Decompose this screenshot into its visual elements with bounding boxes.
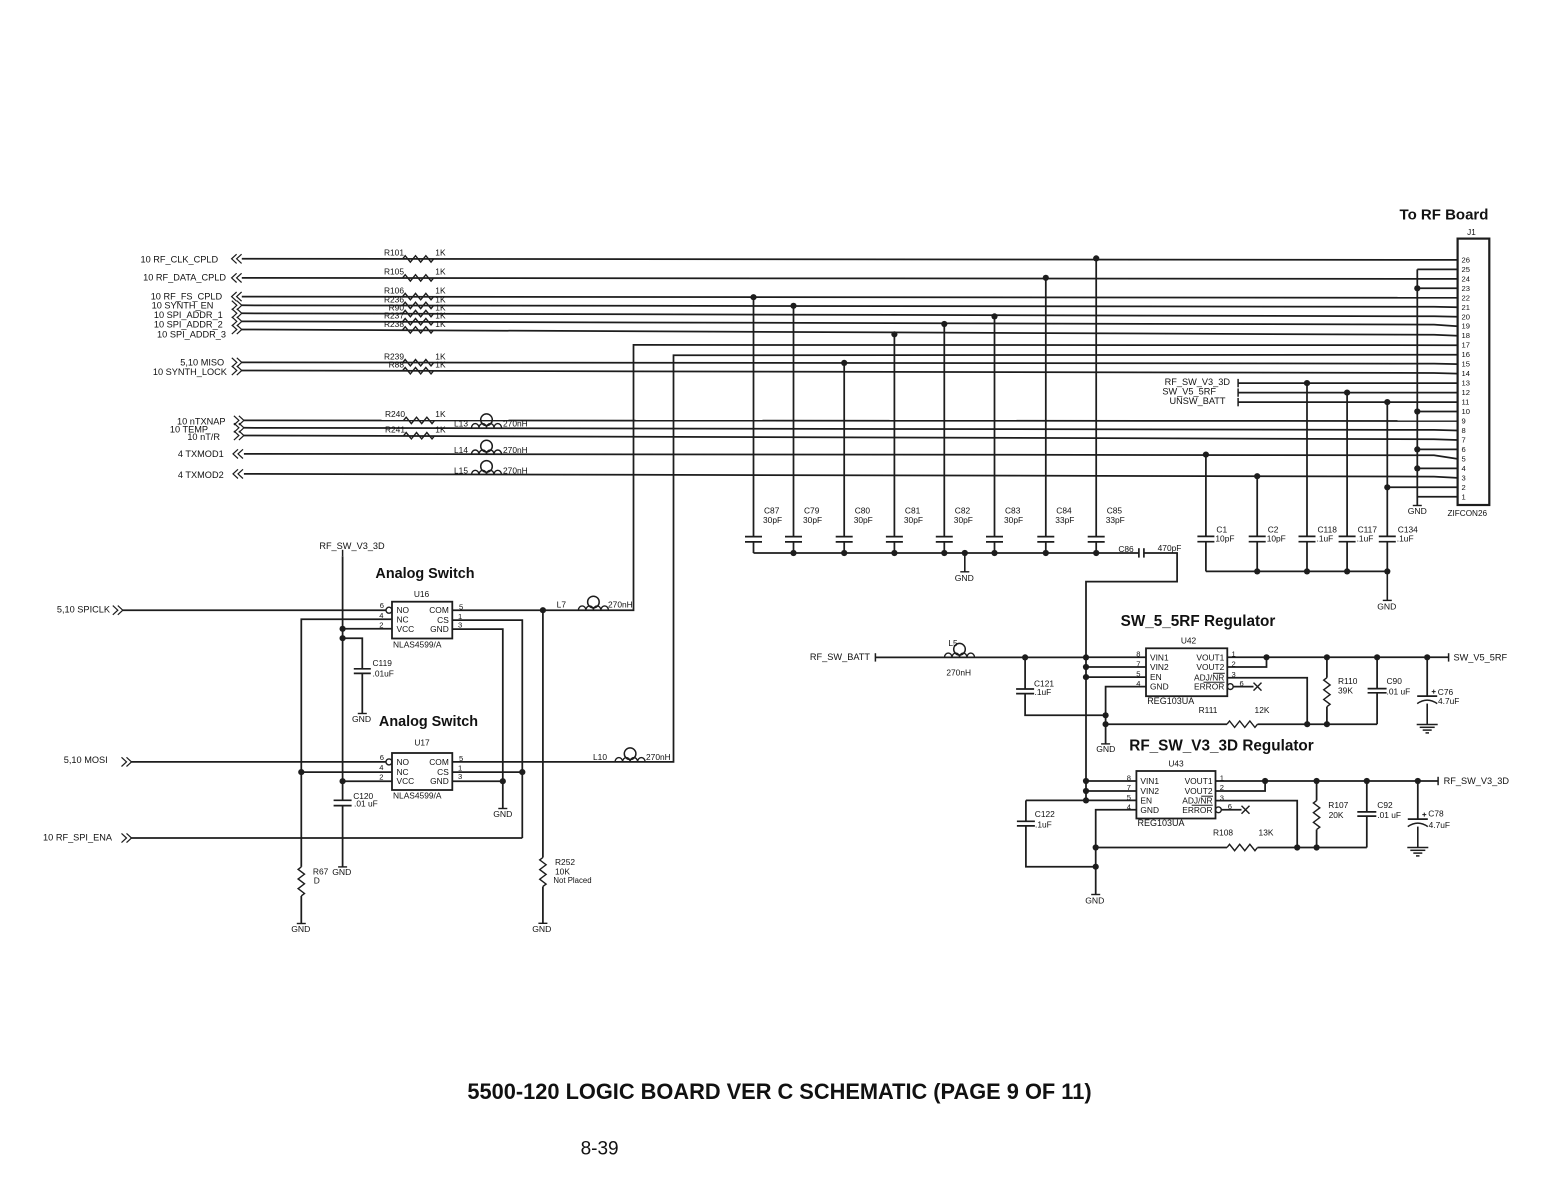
- svg-text:GND: GND: [532, 924, 551, 934]
- svg-text:C119: C119: [373, 658, 393, 668]
- svg-text:.1uF: .1uF: [1035, 687, 1052, 697]
- svg-text:VOUT2: VOUT2: [1196, 662, 1224, 672]
- svg-text:Analog Switch: Analog Switch: [375, 566, 474, 582]
- svg-text:20K: 20K: [1329, 810, 1344, 820]
- svg-text:6: 6: [380, 753, 384, 762]
- svg-text:.1uF: .1uF: [1035, 820, 1052, 830]
- svg-text:D: D: [314, 876, 320, 886]
- svg-text:L15: L15: [454, 465, 468, 475]
- svg-text:10 RF_CLK_CPLD: 10 RF_CLK_CPLD: [140, 255, 218, 265]
- svg-text:NO: NO: [397, 757, 410, 767]
- svg-text:5: 5: [1462, 454, 1466, 463]
- svg-text:U42: U42: [1181, 636, 1197, 646]
- svg-text:RF_SW_V3_3D: RF_SW_V3_3D: [1165, 377, 1231, 387]
- svg-text:.1uF: .1uF: [1317, 534, 1334, 544]
- svg-text:NC: NC: [397, 614, 409, 624]
- svg-text:VCC: VCC: [397, 776, 415, 786]
- svg-text:VOUT1: VOUT1: [1185, 776, 1213, 786]
- svg-text:39K: 39K: [1338, 686, 1353, 696]
- svg-text:J1: J1: [1467, 228, 1476, 237]
- svg-text:26: 26: [1462, 255, 1470, 264]
- svg-text:22: 22: [1462, 293, 1470, 302]
- svg-text:17: 17: [1462, 341, 1470, 350]
- svg-text:1K: 1K: [435, 409, 446, 419]
- svg-text:R111: R111: [1199, 705, 1218, 715]
- svg-text:15: 15: [1462, 360, 1470, 369]
- svg-text:.01uF: .01uF: [373, 669, 394, 679]
- svg-text:10 SPI_ADDR_1: 10 SPI_ADDR_1: [154, 310, 223, 320]
- svg-text:L5: L5: [948, 638, 958, 648]
- svg-text:L7: L7: [557, 599, 567, 609]
- svg-text:270nH: 270nH: [946, 667, 971, 677]
- svg-text:RF_SW_V3_3D: RF_SW_V3_3D: [319, 541, 385, 551]
- svg-text:RF_SW_V3_3D: RF_SW_V3_3D: [1444, 776, 1510, 786]
- svg-text:ERROR: ERROR: [1182, 805, 1212, 815]
- svg-text:1: 1: [1462, 492, 1466, 501]
- svg-text:3: 3: [1462, 473, 1466, 482]
- svg-text:10 RF_DATA_CPLD: 10 RF_DATA_CPLD: [143, 273, 226, 283]
- svg-text:R238: R238: [384, 319, 404, 329]
- svg-text:4: 4: [379, 763, 383, 772]
- svg-text:10 nT/R: 10 nT/R: [187, 432, 220, 442]
- svg-text:8-39: 8-39: [581, 1138, 619, 1159]
- svg-text:470pF: 470pF: [1158, 543, 1182, 553]
- svg-text:VIN2: VIN2: [1150, 662, 1169, 672]
- svg-text:14: 14: [1462, 369, 1470, 378]
- svg-text:RF_SW_V3_3D Regulator: RF_SW_V3_3D Regulator: [1129, 737, 1314, 754]
- svg-text:10: 10: [1462, 407, 1470, 416]
- svg-text:C92: C92: [1377, 800, 1393, 810]
- svg-text:SW_V5_5RF: SW_V5_5RF: [1162, 386, 1216, 396]
- svg-text:VOUT2: VOUT2: [1185, 786, 1213, 796]
- svg-text:13: 13: [1462, 379, 1470, 388]
- svg-text:1: 1: [458, 764, 462, 773]
- svg-text:10 RF_SPI_ENA: 10 RF_SPI_ENA: [43, 833, 113, 843]
- svg-text:1K: 1K: [435, 425, 446, 435]
- svg-text:30pF: 30pF: [954, 515, 973, 525]
- svg-text:19: 19: [1462, 322, 1470, 331]
- svg-text:6: 6: [380, 601, 384, 610]
- svg-text:270nH: 270nH: [608, 599, 633, 609]
- svg-text:R107: R107: [1328, 800, 1348, 810]
- svg-text:30pF: 30pF: [854, 515, 873, 525]
- svg-text:VOUT1: VOUT1: [1196, 652, 1224, 662]
- svg-text:4 TXMOD1: 4 TXMOD1: [178, 449, 224, 459]
- svg-text:L14: L14: [454, 445, 468, 455]
- svg-text:3: 3: [458, 621, 462, 630]
- svg-text:GND: GND: [1150, 682, 1169, 692]
- svg-text:SW_V5_5RF: SW_V5_5RF: [1454, 653, 1508, 663]
- svg-text:.01 uF: .01 uF: [1387, 686, 1411, 696]
- svg-text:ERROR: ERROR: [1194, 682, 1224, 692]
- svg-text:U43: U43: [1168, 758, 1184, 768]
- svg-text:C86: C86: [1118, 544, 1134, 554]
- svg-text:C84: C84: [1056, 505, 1072, 515]
- svg-text:GND: GND: [430, 624, 449, 634]
- svg-text:VCC: VCC: [397, 624, 415, 634]
- svg-text:10 SPI_ADDR_2: 10 SPI_ADDR_2: [154, 320, 223, 330]
- svg-text:GND: GND: [1085, 895, 1104, 905]
- svg-text:REG103UA: REG103UA: [1147, 696, 1194, 706]
- svg-text:1K: 1K: [435, 267, 446, 277]
- svg-text:1K: 1K: [435, 360, 446, 370]
- svg-text:COM: COM: [429, 605, 449, 615]
- svg-text:6: 6: [1462, 445, 1466, 454]
- svg-text:3: 3: [458, 772, 462, 781]
- svg-text:33pF: 33pF: [1055, 515, 1074, 525]
- svg-text:23: 23: [1462, 284, 1470, 293]
- svg-text:ZIFCON26: ZIFCON26: [1448, 509, 1488, 518]
- svg-text:GND: GND: [1377, 601, 1396, 611]
- svg-text:18: 18: [1462, 331, 1470, 340]
- svg-text:.01 uF: .01 uF: [1377, 810, 1401, 820]
- svg-text:270nH: 270nH: [503, 445, 528, 455]
- svg-text:10 SYNTH_LOCK: 10 SYNTH_LOCK: [153, 367, 228, 377]
- svg-text:VIN1: VIN1: [1140, 776, 1159, 786]
- svg-text:GND: GND: [291, 924, 310, 934]
- svg-text:10K: 10K: [555, 866, 570, 876]
- svg-text:GND: GND: [430, 776, 449, 786]
- svg-text:9: 9: [1462, 417, 1466, 426]
- svg-text:Analog Switch: Analog Switch: [379, 714, 478, 730]
- svg-text:GND: GND: [1408, 506, 1427, 516]
- svg-text:COM: COM: [429, 757, 449, 767]
- svg-text:L10: L10: [593, 752, 607, 762]
- svg-text:C83: C83: [1005, 505, 1021, 515]
- svg-text:270nH: 270nH: [503, 419, 528, 429]
- svg-text:4 TXMOD2: 4 TXMOD2: [178, 470, 224, 480]
- svg-text:L13: L13: [454, 419, 468, 429]
- svg-text:270nH: 270nH: [503, 465, 528, 475]
- svg-text:1K: 1K: [435, 248, 446, 258]
- svg-text:20: 20: [1462, 312, 1470, 321]
- svg-text:C80: C80: [855, 505, 871, 515]
- svg-text:30pF: 30pF: [904, 515, 923, 525]
- svg-text:21: 21: [1462, 303, 1470, 312]
- svg-text:2: 2: [1462, 483, 1466, 492]
- svg-text:GND: GND: [1096, 744, 1115, 754]
- svg-text:25: 25: [1462, 265, 1470, 274]
- svg-text:R105: R105: [384, 267, 404, 277]
- svg-text:R88: R88: [389, 360, 405, 370]
- svg-text:10 SPI_ADDR_3: 10 SPI_ADDR_3: [157, 330, 226, 340]
- svg-text:24: 24: [1462, 274, 1470, 283]
- svg-text:33pF: 33pF: [1106, 515, 1125, 525]
- svg-text:NLAS4599/A: NLAS4599/A: [393, 790, 442, 800]
- svg-text:.1uF: .1uF: [1397, 534, 1414, 544]
- svg-text:GND: GND: [493, 809, 512, 819]
- svg-text:To RF Board: To RF Board: [1400, 207, 1489, 224]
- svg-text:C78: C78: [1428, 809, 1444, 819]
- svg-text:GND: GND: [1140, 805, 1159, 815]
- svg-text:5500-120 LOGIC BOARD VER C SCH: 5500-120 LOGIC BOARD VER C SCHEMATIC (PA…: [467, 1079, 1091, 1104]
- svg-text:12K: 12K: [1255, 705, 1270, 715]
- svg-text:16: 16: [1462, 350, 1470, 359]
- svg-text:UNSW_BATT: UNSW_BATT: [1170, 396, 1226, 406]
- svg-text:30pF: 30pF: [803, 515, 822, 525]
- svg-text:U16: U16: [414, 589, 430, 599]
- svg-text:2: 2: [379, 773, 383, 782]
- svg-text:GND: GND: [955, 573, 974, 583]
- svg-text:.01 uF: .01 uF: [354, 799, 378, 809]
- svg-text:1K: 1K: [435, 319, 446, 329]
- svg-text:RF_SW_BATT: RF_SW_BATT: [810, 652, 870, 662]
- svg-text:C122: C122: [1035, 809, 1055, 819]
- svg-text:4.7uF: 4.7uF: [1429, 820, 1450, 830]
- svg-text:5,10 SPICLK: 5,10 SPICLK: [57, 605, 111, 615]
- svg-text:Not Placed: Not Placed: [553, 876, 591, 885]
- svg-text:R240: R240: [385, 409, 405, 419]
- svg-text:30pF: 30pF: [763, 515, 782, 525]
- svg-text:4.7uF: 4.7uF: [1438, 696, 1459, 706]
- svg-text:R108: R108: [1213, 828, 1233, 838]
- svg-text:SW_5_5RF Regulator: SW_5_5RF Regulator: [1121, 613, 1276, 630]
- svg-text:C87: C87: [764, 505, 780, 515]
- svg-text:NLAS4599/A: NLAS4599/A: [393, 639, 442, 649]
- svg-text:C90: C90: [1387, 676, 1403, 686]
- svg-text:5,10 MOSI: 5,10 MOSI: [64, 755, 108, 765]
- svg-text:13K: 13K: [1259, 828, 1274, 838]
- svg-text:REG103UA: REG103UA: [1138, 818, 1185, 828]
- svg-text:U17: U17: [414, 737, 430, 747]
- svg-text:R241: R241: [385, 425, 405, 435]
- svg-text:12: 12: [1462, 388, 1470, 397]
- svg-text:8: 8: [1462, 426, 1466, 435]
- svg-text:10pF: 10pF: [1215, 534, 1234, 544]
- svg-text:C79: C79: [804, 505, 820, 515]
- svg-text:GND: GND: [352, 714, 371, 724]
- svg-text:.1uF: .1uF: [1357, 534, 1374, 544]
- svg-text:GND: GND: [332, 867, 351, 877]
- svg-text:C82: C82: [955, 505, 971, 515]
- svg-text:30pF: 30pF: [1004, 515, 1023, 525]
- svg-text:7: 7: [1462, 436, 1466, 445]
- svg-text:EN: EN: [1150, 672, 1162, 682]
- svg-text:R101: R101: [384, 248, 404, 258]
- svg-text:10pF: 10pF: [1267, 534, 1286, 544]
- svg-text:C85: C85: [1107, 505, 1123, 515]
- svg-text:4: 4: [1462, 464, 1466, 473]
- svg-text:C81: C81: [905, 505, 921, 515]
- svg-text:11: 11: [1462, 398, 1470, 407]
- svg-text:VIN1: VIN1: [1150, 652, 1169, 662]
- svg-text:270nH: 270nH: [646, 752, 671, 762]
